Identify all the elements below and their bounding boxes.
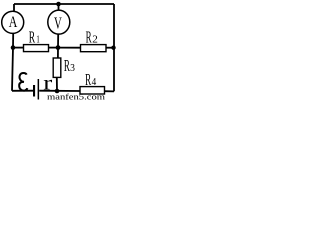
node junction top (dot) [56,2,61,7]
svg-text:R: R [29,28,35,47]
wire ammeter top lead [13,4,15,11]
svg-text:R: R [64,56,70,75]
voltmeter V1 circle [48,10,70,34]
svg-text:A: A [9,14,18,31]
svg-text:R: R [85,70,91,89]
node junction bottom (dot) [55,89,60,94]
wire R3 top lead [57,48,59,59]
wire R2 left lead [58,47,81,49]
ammeter A1 circle [2,11,24,33]
resistor R2 box [81,45,107,52]
wire voltmeter bottom lead [57,34,59,47]
wire bottom left segment [12,90,33,92]
node junction left (dot) [11,45,16,50]
wire R1 right lead [49,47,59,49]
wire right border [113,4,115,91]
resistor R4 box [80,87,105,94]
wire R1 left lead [13,47,24,49]
wire top [14,3,114,5]
svg-text:2: 2 [92,34,98,46]
svg-text:3: 3 [70,62,75,74]
svg-text:R: R [86,28,92,47]
wire left border lower [12,48,13,91]
label EMF epsilon [19,73,27,91]
wire ammeter bottom lead [12,33,14,47]
wire R3 bottom lead [56,77,58,91]
node junction right (dot) [111,46,115,50]
svg-text:1: 1 [36,34,40,46]
svg-text:4: 4 [92,76,97,88]
node junction center (dot) [56,45,61,50]
resistor R1 box [24,45,49,52]
svg-text:V: V [54,13,62,32]
wire voltmeter top lead [58,4,60,10]
wire R2 right lead [106,47,114,49]
wire bottom middle segment [39,90,80,92]
battery cell long plate [38,79,40,100]
svg-text:manfen5.com: manfen5.com [47,92,105,102]
resistor R3 box [53,58,61,77]
battery cell short plate [33,85,35,97]
background [0,0,119,101]
wire bottom right segment [105,90,115,92]
